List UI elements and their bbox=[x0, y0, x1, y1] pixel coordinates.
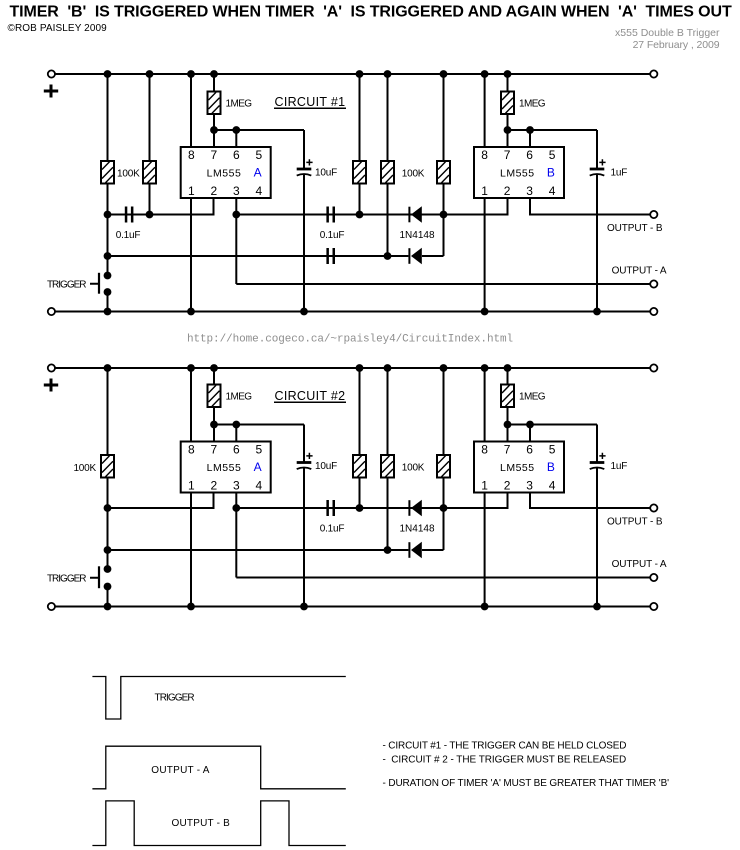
junction dot R2/row1 (circuit 1) bbox=[146, 211, 154, 219]
circuit 2 row1 wire right segment (pin3 A to diode D1 to IC B pin2) bbox=[236, 493, 507, 509]
junction dot R3/row1 (circuit 2) bbox=[356, 504, 364, 512]
svg-text:4: 4 bbox=[255, 184, 262, 198]
junction dot R1/row1 (circuit 2) bbox=[104, 504, 112, 512]
junction dot top rail x=387.5 (circuit 1) bbox=[384, 70, 392, 78]
circuit 1 wire R1 to trigger node bbox=[107, 184, 109, 276]
svg-text:0.1uF: 0.1uF bbox=[320, 524, 345, 535]
circuit 1 wire IC A pin 6 stub bbox=[235, 130, 237, 147]
junction dot bottom rail x=191 (circuit 2) bbox=[187, 603, 195, 611]
circuit 1 bottom terminal left bbox=[48, 308, 55, 315]
circuit 1 wire V+ to 1MEG B bbox=[507, 74, 509, 92]
resistor R4 100K (circuit 2) bbox=[381, 455, 394, 478]
circuit 1 wire V+ to IC A pin 8 bbox=[190, 74, 192, 147]
circuit 2 wire 1uF bottom to ground rail bbox=[596, 468, 598, 607]
circuit 2 wire V+ to 1MEG A bbox=[213, 368, 215, 385]
underline CIRCUIT #1 bbox=[274, 107, 346, 109]
svg-text:LM555: LM555 bbox=[500, 462, 535, 474]
circuit 1 wire IC B pin 6 stub bbox=[529, 130, 531, 147]
junction dot top rail x=443.5 (circuit 2) bbox=[440, 364, 448, 372]
resistor 1MEG A (circuit 2) bbox=[208, 385, 221, 408]
circuit 2 wire V+ to IC B pin 8 bbox=[484, 368, 486, 442]
svg-text:1N4148: 1N4148 bbox=[399, 524, 434, 535]
svg-text:A: A bbox=[254, 166, 262, 180]
circuit 1 wire 1MEG A to IC A pin 7 bbox=[213, 114, 215, 147]
junction dot R3/row1 (circuit 1) bbox=[356, 211, 364, 219]
circuit 1 wire V+ to R1 bbox=[107, 74, 109, 161]
junction dot pin7 node B (circuit 1) bbox=[504, 126, 512, 134]
circuit 1 OUTPUT B wire from IC B pin 3 bbox=[530, 198, 654, 215]
OUTPUT B terminal (circuit 2) bbox=[650, 504, 657, 511]
circuit 2 bottom terminal right bbox=[650, 603, 657, 610]
resistor R3 0.1-side 100K (circuit 1) bbox=[353, 161, 366, 184]
circuit 2 wire R5 to row1 and down to row2 bbox=[443, 478, 445, 551]
junction dot pin6 node A (circuit 1) bbox=[232, 126, 240, 134]
svg-text:100K: 100K bbox=[117, 169, 140, 180]
svg-text:OUTPUT - B: OUTPUT - B bbox=[607, 223, 663, 234]
junction dot pin7 node A (circuit 1) bbox=[210, 126, 218, 134]
junction dot trigger/row2 (circuit 2) bbox=[104, 546, 112, 554]
circuit 2 wire diode D2 to R5 column rise bbox=[422, 549, 444, 551]
circuit 1 wire IC B pin 1 to bottom rail bbox=[484, 198, 486, 312]
circuit 1 wire V+ to IC B pin 8 bbox=[484, 74, 486, 147]
svg-text:8: 8 bbox=[188, 442, 195, 456]
circuit 1 wire V+ to R3 bbox=[359, 74, 361, 161]
diode D1 1N4148 (circuit 1) bbox=[408, 206, 421, 223]
circuit 2 V+ top rail wire bbox=[51, 367, 653, 369]
pushbutton trigger switch (circuit 1) bbox=[90, 273, 99, 294]
junction dot R4/D2 (circuit 2) bbox=[384, 546, 392, 554]
circuit 2 row2 wire (trigger node to diode D2) bbox=[108, 549, 409, 551]
svg-text:5: 5 bbox=[549, 442, 556, 456]
svg-text:2: 2 bbox=[504, 184, 511, 198]
trigger switch top contact dot (circuit 1) bbox=[104, 272, 112, 280]
svg-text:3: 3 bbox=[233, 479, 240, 493]
resistor R1 100K (circuit 2) bbox=[101, 455, 114, 478]
resistor R1 100K (circuit 1) bbox=[101, 161, 114, 184]
circuit 1 ground bottom rail wire bbox=[51, 311, 653, 313]
svg-text:LM555: LM555 bbox=[500, 167, 535, 179]
svg-text:OUTPUT - A: OUTPUT - A bbox=[612, 559, 667, 570]
circuit 1 bottom terminal right bbox=[650, 308, 657, 315]
resistor R3 0.1-side 100K (circuit 2) bbox=[353, 455, 366, 478]
junction dot pin6 node B (circuit 1) bbox=[526, 126, 534, 134]
svg-text:2: 2 bbox=[504, 479, 511, 493]
resistor 1MEG B (circuit 1) bbox=[501, 92, 514, 115]
svg-text:3: 3 bbox=[526, 184, 533, 198]
circuit 2 bottom terminal left bbox=[48, 603, 55, 610]
svg-text:TRIGGER: TRIGGER bbox=[155, 693, 195, 704]
circuit 1 wire IC A pin 3 down through row1 bbox=[235, 198, 237, 284]
junction dot pin6 node A (circuit 2) bbox=[232, 421, 240, 429]
svg-text:TRIGGER: TRIGGER bbox=[47, 573, 86, 584]
svg-text:5: 5 bbox=[255, 148, 262, 162]
circuit 2 wire IC B pin 1 to bottom rail bbox=[484, 493, 486, 607]
waveform OUTPUT B trace bbox=[92, 801, 345, 846]
svg-text:100K: 100K bbox=[402, 463, 425, 474]
svg-text:LM555: LM555 bbox=[207, 462, 242, 474]
svg-text:7: 7 bbox=[504, 148, 511, 162]
svg-text:1: 1 bbox=[188, 479, 195, 493]
junction dot trigger/row2 (circuit 1) bbox=[104, 252, 112, 260]
circuit 2 wire R3 to row1 bbox=[359, 478, 361, 509]
svg-text:3: 3 bbox=[233, 184, 240, 198]
svg-text:- CIRCUIT # 2 - THE TRIGGER M: - CIRCUIT # 2 - THE TRIGGER MUST BE RELE… bbox=[383, 754, 627, 765]
svg-text:CIRCUIT #2: CIRCUIT #2 bbox=[275, 389, 346, 403]
junction dot top rail x=214 (circuit 1) bbox=[210, 70, 218, 78]
junction dot bottom rail x=304 (circuit 2) bbox=[300, 603, 308, 611]
resistor 1MEG B (circuit 2) bbox=[501, 385, 514, 408]
diode D1 1N4148 (circuit 2) bbox=[408, 500, 421, 517]
circuit 1 wire V+ to R4 bbox=[387, 74, 389, 161]
circuit 2 wire node to 1uF top bbox=[596, 425, 598, 463]
svg-text:1N4148: 1N4148 bbox=[399, 230, 434, 241]
circuit 2 V+ terminal right bbox=[650, 364, 657, 371]
svg-text:- DURATION OF TIMER 'A' MUST B: - DURATION OF TIMER 'A' MUST BE GREATER … bbox=[383, 778, 670, 789]
capacitor 0.1uF lower (circuit 1) bbox=[326, 248, 335, 264]
junction dot top rail x=214 (circuit 2) bbox=[210, 364, 218, 372]
circuit 1 wire pin7-pin6-10uF node bbox=[214, 129, 304, 131]
circuit 1 wire R5 to row1 and down to row2 bbox=[443, 184, 445, 257]
circuit 2 wire IC A pin 3 down through row1 bbox=[235, 493, 237, 578]
svg-text:0.1uF: 0.1uF bbox=[116, 230, 141, 241]
svg-text:1: 1 bbox=[481, 184, 488, 198]
junction dot bottom rail x=107.5 (circuit 1) bbox=[104, 308, 112, 316]
junction dot top rail x=359.5 (circuit 2) bbox=[356, 364, 364, 372]
circuit 1 V+ top rail wire bbox=[51, 73, 653, 75]
waveform OUTPUT A trace bbox=[92, 746, 345, 789]
circuit 2 row1 wire left segment to IC A pin2 bbox=[108, 493, 214, 509]
circuit 1 plus symbol bbox=[44, 85, 58, 98]
circuit 1 wire diode D2 to R5 column rise bbox=[422, 255, 444, 257]
junction dot bottom rail x=484.6 (circuit 1) bbox=[481, 308, 489, 316]
svg-text:LM555: LM555 bbox=[207, 167, 242, 179]
circuit 2 wire 1MEG A to IC A pin 7 bbox=[213, 407, 215, 442]
circuit 1 wire R4 to row2 bbox=[387, 184, 389, 257]
pushbutton trigger switch (circuit 2) bbox=[90, 566, 99, 588]
svg-text:10uF: 10uF bbox=[315, 168, 337, 179]
circuit 1 V+ terminal right bbox=[650, 70, 657, 77]
svg-text:100K: 100K bbox=[73, 463, 96, 474]
circuit 1 wire IC A pin 1 to bottom rail bbox=[190, 198, 192, 312]
circuit 2 wire IC B pin 6 stub bbox=[529, 425, 531, 442]
circuit 2 wire R4 to row2 bbox=[387, 478, 389, 551]
underline CIRCUIT #2 bbox=[274, 401, 346, 403]
svg-text:5: 5 bbox=[255, 442, 262, 456]
circuit 2 wire pin7-pin6-1uF node B bbox=[508, 424, 598, 426]
svg-text:10uF: 10uF bbox=[315, 461, 337, 472]
svg-text:1MEG: 1MEG bbox=[519, 99, 546, 110]
svg-text:4: 4 bbox=[549, 479, 556, 493]
svg-text:1MEG: 1MEG bbox=[226, 99, 253, 110]
svg-text:OUTPUT - B: OUTPUT - B bbox=[607, 517, 663, 528]
svg-text:1MEG: 1MEG bbox=[519, 392, 546, 403]
svg-text:x555 Double B Trigger: x555 Double B Trigger bbox=[615, 27, 720, 39]
svg-text:0.1uF: 0.1uF bbox=[320, 230, 345, 241]
svg-text:8: 8 bbox=[188, 148, 195, 162]
circuit 1 wire 10uF bottom to ground rail bbox=[303, 174, 305, 312]
IC LM555 B (circuit 2) bbox=[474, 442, 564, 493]
junction dot bottom rail x=597 (circuit 2) bbox=[593, 603, 601, 611]
svg-text:5: 5 bbox=[549, 148, 556, 162]
svg-text:6: 6 bbox=[233, 148, 240, 162]
circuit 2 wire V+ to IC A pin 8 bbox=[190, 368, 192, 442]
circuit 1 wire R2 to row1 bbox=[149, 184, 151, 215]
circuit 2 wire V+ to R5 bbox=[443, 368, 445, 455]
circuit 1 wire V+ to 1MEG A bbox=[213, 74, 215, 92]
circuit 1 wire R3 to row1 bbox=[359, 184, 361, 215]
resistor R5 100K (circuit 1) bbox=[437, 161, 450, 184]
trigger switch top contact dot (circuit 2) bbox=[104, 565, 112, 573]
capacitor 1uF (circuit 1) bbox=[590, 159, 606, 175]
svg-text:8: 8 bbox=[481, 442, 488, 456]
capacitor 1uF (circuit 2) bbox=[590, 453, 606, 469]
svg-text:7: 7 bbox=[504, 442, 511, 456]
svg-text:4: 4 bbox=[549, 184, 556, 198]
circuit 1 wire 1uF bottom to ground rail bbox=[596, 174, 598, 312]
svg-text:6: 6 bbox=[526, 442, 533, 456]
capacitor 0.1uF coupling (circuit 2) bbox=[326, 500, 335, 516]
circuit 1 wire pin7-pin6-1uF node B bbox=[508, 129, 598, 131]
junction dot top rail x=484.6 (circuit 1) bbox=[481, 70, 489, 78]
junction dot bottom rail x=191 (circuit 1) bbox=[187, 308, 195, 316]
svg-text:4: 4 bbox=[255, 479, 262, 493]
circuit 2 wire V+ to R4 bbox=[387, 368, 389, 455]
circuit 2 wire V+ to R3 bbox=[359, 368, 361, 455]
junction dot pin7 node B (circuit 2) bbox=[504, 421, 512, 429]
capacitor 0.1uF coupling (circuit 1) bbox=[326, 207, 335, 223]
junction dot R1/row1 (circuit 1) bbox=[104, 211, 112, 219]
junction dot bottom rail x=597 (circuit 1) bbox=[593, 308, 601, 316]
svg-text:1uF: 1uF bbox=[611, 168, 628, 179]
circuit 1 wire V+ to R5 bbox=[443, 74, 445, 161]
circuit 2 wire 10uF bottom to ground rail bbox=[303, 468, 305, 607]
svg-text:6: 6 bbox=[526, 148, 533, 162]
circuit 2 plus symbol bbox=[44, 379, 58, 392]
svg-text:1: 1 bbox=[481, 479, 488, 493]
circuit 1 wire V+ to R2 bbox=[149, 74, 151, 161]
circuit 2 OUTPUT B wire from IC B pin 3 bbox=[530, 493, 654, 509]
IC LM555 A (circuit 2) bbox=[181, 442, 271, 493]
junction dot top rail x=359.5 (circuit 1) bbox=[356, 70, 364, 78]
circuit 2 V+ terminal left bbox=[48, 364, 55, 371]
capacitor 10uF (circuit 1) bbox=[297, 159, 313, 175]
svg-text:TRIGGER: TRIGGER bbox=[47, 279, 86, 290]
capacitor C1 0.1uF (circuit 1) bbox=[125, 207, 134, 223]
circuit 1 OUTPUT A wire bbox=[236, 283, 654, 285]
circuit 2 OUTPUT A wire bbox=[236, 577, 654, 579]
resistor R4 100K (circuit 1) bbox=[381, 161, 394, 184]
circuit 1 row2 wire (trigger node to diode D2) bbox=[108, 255, 409, 257]
waveform TRIGGER trace bbox=[92, 677, 345, 720]
diode D2 1N4148 (circuit 2) bbox=[408, 542, 421, 559]
trigger switch bottom contact dot (circuit 1) bbox=[104, 288, 112, 296]
svg-text:2: 2 bbox=[210, 184, 217, 198]
junction dot top rail x=484.6 (circuit 2) bbox=[481, 364, 489, 372]
svg-text:27 February , 2009: 27 February , 2009 bbox=[633, 39, 720, 51]
junction dot bottom rail x=304 (circuit 1) bbox=[300, 308, 308, 316]
circuit 1 V+ terminal left bbox=[48, 70, 55, 77]
junction dot top rail x=387.5 (circuit 2) bbox=[384, 364, 392, 372]
junction dot pin3 A/row1 (circuit 2) bbox=[232, 504, 240, 512]
circuit 2 wire V+ to 1MEG B bbox=[507, 368, 509, 385]
junction dot top rail x=149.5 (circuit 1) bbox=[146, 70, 154, 78]
junction dot pin3 A/row1 (circuit 1) bbox=[232, 211, 240, 219]
junction dot bottom rail x=107.5 (circuit 2) bbox=[104, 603, 112, 611]
circuit 2 wire node to 10uF top bbox=[303, 425, 305, 463]
circuit 1 wire node to 1uF top bbox=[596, 130, 598, 169]
junction dot top rail x=443.5 (circuit 1) bbox=[440, 70, 448, 78]
svg-text:TIMER 'B' IS TRIGGERED WHEN: TIMER 'B' IS TRIGGERED WHEN TIMER 'A' IS… bbox=[10, 4, 732, 21]
junction dot top rail x=191 (circuit 1) bbox=[187, 70, 195, 78]
circuit 2 wire R1 to trigger node bbox=[107, 478, 109, 570]
circuit 2 wire 1MEG B to IC B pin 7 bbox=[507, 407, 509, 442]
svg-text:http://home.cogeco.ca/~rpaisle: http://home.cogeco.ca/~rpaisley4/Circuit… bbox=[187, 334, 513, 346]
circuit 1 wire 1MEG B to IC B pin 7 bbox=[507, 114, 509, 147]
svg-text:7: 7 bbox=[210, 148, 217, 162]
OUTPUT A terminal (circuit 2) bbox=[650, 574, 657, 581]
resistor R5 100K (circuit 2) bbox=[437, 455, 450, 478]
junction dot top rail x=107.5 (circuit 2) bbox=[104, 364, 112, 372]
circuit 2 wire IC A pin 6 stub bbox=[235, 425, 237, 442]
svg-text:OUTPUT - A: OUTPUT - A bbox=[151, 765, 210, 776]
OUTPUT A terminal (circuit 1) bbox=[650, 280, 657, 287]
OUTPUT B terminal (circuit 1) bbox=[650, 211, 657, 218]
IC LM555 B (circuit 1) bbox=[474, 147, 564, 198]
svg-text:CIRCUIT #1: CIRCUIT #1 bbox=[275, 95, 346, 109]
svg-text:7: 7 bbox=[210, 442, 217, 456]
circuit 1 row1 wire right segment (pin3 A to diode D1 to IC B pin2) bbox=[236, 198, 507, 215]
junction dot top rail x=507.5 (circuit 1) bbox=[504, 70, 512, 78]
junction dot R5/D1 (circuit 1) bbox=[440, 211, 448, 219]
svg-text:B: B bbox=[547, 460, 555, 474]
svg-text:6: 6 bbox=[233, 442, 240, 456]
circuit 1 row1 wire left segment to IC A pin2 bbox=[108, 198, 214, 215]
junction dot bottom rail x=484.6 (circuit 2) bbox=[481, 603, 489, 611]
svg-text:- CIRCUIT #1 - THE TRIGGER CAN: - CIRCUIT #1 - THE TRIGGER CAN BE HELD C… bbox=[383, 740, 627, 751]
junction dot R4/D2 (circuit 1) bbox=[384, 252, 392, 260]
svg-text:OUTPUT - B: OUTPUT - B bbox=[172, 818, 231, 829]
svg-text:©ROB PAISLEY 2009: ©ROB PAISLEY 2009 bbox=[8, 23, 108, 34]
circuit 2 wire trigger switch to bottom rail bbox=[107, 587, 109, 607]
svg-text:1MEG: 1MEG bbox=[226, 392, 253, 403]
circuit 2 ground bottom rail wire bbox=[51, 606, 653, 608]
svg-text:3: 3 bbox=[526, 479, 533, 493]
svg-text:B: B bbox=[547, 166, 555, 180]
junction dot pin6 node B (circuit 2) bbox=[526, 421, 534, 429]
svg-text:1uF: 1uF bbox=[611, 461, 628, 472]
svg-text:100K: 100K bbox=[402, 169, 425, 180]
circuit 2 wire pin7-pin6-10uF node bbox=[214, 424, 304, 426]
IC LM555 A (circuit 1) bbox=[181, 147, 271, 198]
svg-text:8: 8 bbox=[481, 148, 488, 162]
svg-text:A: A bbox=[254, 460, 262, 474]
svg-text:1: 1 bbox=[188, 184, 195, 198]
circuit 1 wire node to 10uF top bbox=[303, 130, 305, 169]
junction dot top rail x=107.5 (circuit 1) bbox=[104, 70, 112, 78]
svg-text:2: 2 bbox=[210, 479, 217, 493]
junction dot top rail x=507.5 (circuit 2) bbox=[504, 364, 512, 372]
diode D2 1N4148 (circuit 1) bbox=[408, 248, 421, 265]
circuit 1 wire trigger switch to bottom rail bbox=[107, 292, 109, 312]
resistor 1MEG A (circuit 1) bbox=[208, 92, 221, 115]
capacitor 10uF (circuit 2) bbox=[297, 453, 313, 469]
trigger switch bottom contact dot (circuit 2) bbox=[104, 583, 112, 591]
junction dot R5/D1 (circuit 2) bbox=[440, 504, 448, 512]
junction dot top rail x=191 (circuit 2) bbox=[187, 364, 195, 372]
circuit 2 wire V+ to R1 bbox=[107, 368, 109, 455]
circuit 2 wire IC A pin 1 to bottom rail bbox=[190, 493, 192, 607]
junction dot pin7 node A (circuit 2) bbox=[210, 421, 218, 429]
svg-text:OUTPUT - A: OUTPUT - A bbox=[612, 266, 667, 277]
resistor R2 100K (circuit 1) bbox=[143, 161, 156, 184]
